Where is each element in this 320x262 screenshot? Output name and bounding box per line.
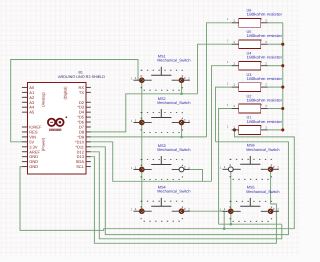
wire 5V to MS1 pin1 bbox=[11, 60, 138, 142]
wire U1.2 to bus bbox=[268, 129, 283, 131]
svg-text:SCL: SCL bbox=[76, 164, 85, 169]
wire D13 to MS6.2 bbox=[91, 157, 277, 244]
svg-text:180kohm resistor: 180kohm resistor bbox=[247, 97, 283, 102]
B1 pin D2 bbox=[86, 101, 91, 103]
U6 pin 1 bbox=[232, 22, 239, 24]
wire D12 bottom run bbox=[91, 152, 282, 239]
B1 pin *D3 bbox=[86, 106, 91, 108]
MS6 pin 2 bbox=[271, 168, 279, 170]
resistor U3 180kohm bbox=[227, 73, 285, 92]
MS1 pin 2 bbox=[182, 79, 190, 81]
B1 pin GND bbox=[22, 156, 28, 158]
junction U1.2 bbox=[281, 128, 284, 131]
wire resistor bus bbox=[282, 23, 284, 130]
wire D9 net bbox=[91, 136, 207, 138]
U5 body bbox=[239, 40, 261, 49]
MS3 pin 1 bbox=[134, 169, 142, 171]
mechanical switch MS1 bbox=[131, 55, 191, 91]
B1 pin GND bbox=[22, 166, 28, 168]
U2 pin 1 bbox=[232, 108, 239, 110]
svg-text:Mechanical_Switch: Mechanical_Switch bbox=[157, 189, 190, 194]
B1 pin D8 bbox=[86, 131, 91, 133]
MS3 pin 2 bbox=[182, 169, 190, 171]
wire U6.2 to bus bbox=[268, 22, 283, 24]
B1 pin *D6 bbox=[86, 121, 91, 123]
U1 body bbox=[239, 126, 261, 135]
svg-text:Mechanical_Switch: Mechanical_Switch bbox=[246, 189, 279, 194]
resistor U5 180kohm bbox=[227, 30, 285, 49]
U6 body bbox=[239, 18, 261, 27]
B1 pin D4 bbox=[86, 111, 91, 113]
svg-text:180kohm resistor: 180kohm resistor bbox=[247, 119, 283, 124]
B1 pin D7 bbox=[86, 126, 91, 128]
B1 pin VIN bbox=[22, 136, 28, 138]
svg-text:180kohm resistor: 180kohm resistor bbox=[247, 33, 283, 38]
B1 pin A2 bbox=[22, 96, 28, 98]
wire MS5/6 left link bbox=[219, 223, 282, 225]
B1 pin GND bbox=[22, 161, 28, 163]
IC B1 ARDUINO UNO R3 SHIELD bbox=[28, 71, 106, 174]
wire U2.2 to bus bbox=[268, 108, 283, 110]
wire bus MS1.1-MS4.1 bbox=[141, 80, 143, 211]
junction U3.2 bbox=[281, 86, 284, 89]
MS5 pin 2 bbox=[271, 210, 279, 212]
U3 pin 2 bbox=[261, 86, 268, 88]
U4 pin 1 bbox=[232, 65, 239, 67]
svg-text:ARDUINO UNO R3 SHIELD: ARDUINO UNO R3 SHIELD bbox=[58, 75, 105, 79]
B1 pin A3 bbox=[22, 101, 28, 103]
U3 pin 1 bbox=[232, 86, 239, 88]
junction U5.2 bbox=[281, 43, 284, 46]
MS1 pin 1 bbox=[134, 79, 142, 81]
wire U4.2 to bus bbox=[268, 65, 283, 67]
wire U3.1 drop bbox=[216, 87, 232, 142]
B1 pin *D9 bbox=[86, 136, 91, 138]
U6 pin 2 bbox=[261, 22, 268, 24]
svg-text:180kohm resistor: 180kohm resistor bbox=[247, 76, 283, 81]
B1 pin A4 bbox=[22, 106, 28, 108]
svg-text:ARDUINO: ARDUINO bbox=[49, 128, 62, 132]
svg-text:(Digital): (Digital) bbox=[64, 86, 68, 100]
wire D11 to U3.1 bbox=[91, 142, 289, 235]
B1 pin *D11 bbox=[86, 146, 91, 148]
Arduino logo bbox=[48, 116, 67, 132]
wire MS3.2 tap bbox=[190, 170, 203, 182]
U3 body bbox=[239, 83, 261, 92]
B1 pin D12 bbox=[86, 151, 91, 153]
wire MS6.1-MS5.1 bus bbox=[230, 169, 232, 224]
mechanical switch MS3 bbox=[131, 144, 191, 180]
junction U1.1 bbox=[233, 128, 236, 131]
wire U5.1 drop bbox=[198, 44, 232, 94]
B1 pin *D10 bbox=[86, 141, 91, 143]
resistor U6 180kohm bbox=[227, 9, 283, 28]
MS5 pin 1 bbox=[223, 210, 231, 212]
wire U5.2 to bus bbox=[268, 43, 283, 45]
junction U4.2 bbox=[281, 64, 284, 67]
MS6 pin 1 bbox=[223, 168, 231, 170]
wire U6.1 drop bbox=[207, 23, 232, 137]
svg-text:Mechanical_Switch: Mechanical_Switch bbox=[157, 100, 190, 105]
B1 pin A5 bbox=[22, 111, 28, 113]
svg-text:GND: GND bbox=[29, 164, 38, 169]
wire MS1.2 drop bbox=[181, 80, 183, 94]
B1 pin SDA bbox=[86, 161, 91, 163]
B1 pin TX bbox=[86, 91, 91, 93]
svg-text:A5: A5 bbox=[29, 110, 35, 115]
wire MS4.2 to GND trunk bbox=[190, 211, 224, 229]
wire U4.1 drop bbox=[212, 66, 232, 182]
B1 pin A1 bbox=[22, 91, 28, 93]
U2 pin 2 bbox=[261, 108, 268, 110]
wire U3.2 to bus bbox=[268, 86, 283, 88]
resistor U1 180kohm bbox=[227, 116, 285, 135]
B1 pin 5V bbox=[22, 141, 28, 143]
mechanical switch MS5 bbox=[220, 186, 280, 222]
junction bbox=[180, 136, 183, 139]
wire D8 net bbox=[91, 94, 198, 132]
U4 body bbox=[239, 61, 261, 70]
mechanical switch MS6 bbox=[220, 144, 280, 180]
B1 pin *D5 bbox=[86, 116, 91, 118]
U1 pin 2 bbox=[261, 129, 268, 131]
B1 pin A0 bbox=[22, 86, 28, 88]
svg-text:180kohm resistor: 180kohm resistor bbox=[247, 12, 283, 17]
B1 pin D13 bbox=[86, 156, 91, 158]
B1 pin SCL bbox=[86, 166, 91, 168]
wire MS2.2 drop bbox=[181, 123, 183, 137]
mechanical switch MS4 bbox=[131, 186, 191, 222]
U4 pin 2 bbox=[261, 65, 268, 67]
resistor U2 180kohm bbox=[227, 94, 285, 113]
wire GND trunk bbox=[20, 130, 294, 231]
svg-text:Mechanical_Switch: Mechanical_Switch bbox=[157, 147, 190, 152]
resistor U4 180kohm bbox=[227, 52, 285, 71]
svg-text:Mechanical_Switch: Mechanical_Switch bbox=[157, 58, 190, 63]
MS4 pin 1 bbox=[134, 210, 142, 212]
MS4 pin 2 bbox=[182, 210, 190, 212]
MS2 pin 2 bbox=[182, 122, 190, 124]
U1 pin 1 bbox=[232, 129, 239, 131]
svg-text:(Analog): (Analog) bbox=[42, 92, 46, 107]
U2 body bbox=[239, 104, 261, 113]
B1 pin 3.3V bbox=[22, 146, 28, 148]
junction U2.2 bbox=[281, 107, 284, 110]
mechanical switch MS2 bbox=[131, 97, 191, 133]
wire D10 net bbox=[91, 142, 212, 182]
B1 pin AREF bbox=[22, 151, 28, 153]
B1 pin RES bbox=[22, 131, 28, 133]
B1 pin IOREF bbox=[22, 126, 28, 128]
MS2 pin 1 bbox=[134, 122, 142, 124]
svg-text:(Power): (Power) bbox=[42, 137, 46, 151]
svg-text:180kohm resistor: 180kohm resistor bbox=[247, 55, 283, 60]
U5 pin 2 bbox=[261, 43, 268, 45]
svg-text:TX: TX bbox=[79, 90, 84, 95]
junction bbox=[230, 223, 233, 226]
junction bbox=[180, 93, 183, 96]
junction bbox=[223, 227, 226, 230]
U5 pin 1 bbox=[232, 43, 239, 45]
wire U2.1 drop bbox=[219, 109, 232, 225]
svg-text:Mechanical_Switch: Mechanical_Switch bbox=[246, 147, 279, 152]
B1 pin RX bbox=[86, 86, 91, 88]
